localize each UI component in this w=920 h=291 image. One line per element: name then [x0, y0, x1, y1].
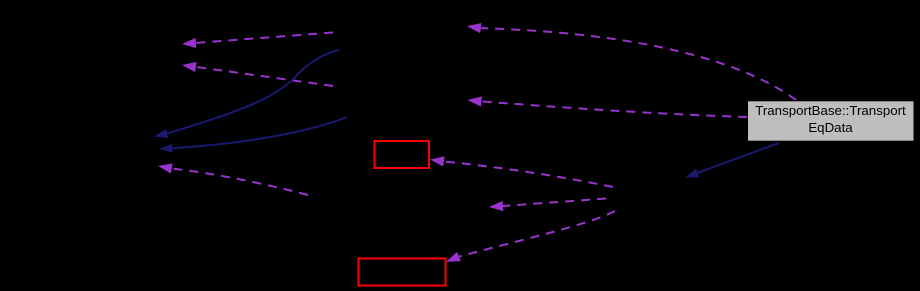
node TransportBase::TransportEqData box	[748, 101, 915, 141]
dashed edge E2 to upper-left node	[182, 62, 333, 86]
dashed edge E7 to middle-lower node	[489, 198, 613, 211]
dashed edge E3 from TransportEqData to middle node	[467, 23, 796, 100]
red node box 2	[359, 259, 446, 286]
solid blue edge A to left node	[154, 50, 339, 138]
dashed edge E8 to red box 2	[446, 211, 615, 262]
dashed edge E5 to left node	[158, 163, 308, 195]
red node box 1	[375, 141, 430, 168]
solid blue edge B to left node	[159, 117, 347, 153]
solid blue edge C from TransportEqData to hub node	[685, 143, 779, 178]
node TransportBase::TransportEqData label	[747, 103, 914, 136]
dashed edge E4 from TransportEqData to middle node	[468, 96, 748, 117]
dashed edge E1 to upper-left node	[182, 33, 333, 49]
dashed edge E6 to red box 1	[430, 156, 613, 187]
